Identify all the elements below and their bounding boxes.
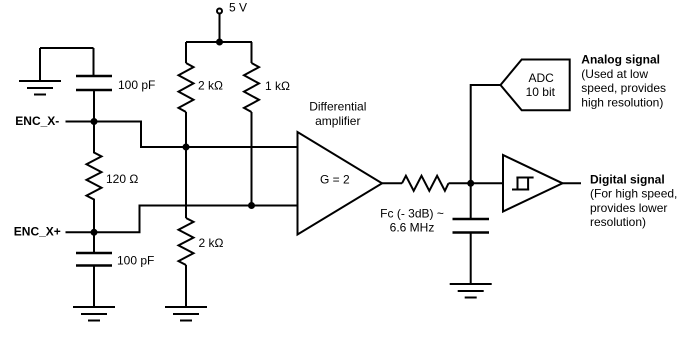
ADC block [501,60,570,111]
node supply rail junction [216,39,223,46]
wire C2 bottom stub [93,266,95,308]
node ENC_X- junction [91,118,98,125]
svg-text:G = 2: G = 2 [320,173,350,187]
wire ENC_X+ to amp minus input [94,206,298,233]
svg-text:ADC: ADC [529,71,555,85]
wire ENC_X- lead [66,121,95,123]
comparator U2 schmitt trigger [503,155,563,212]
resistor R5 filter [402,176,449,191]
svg-text:speed, provides: speed, provides [581,81,666,95]
wire R5 to node [449,182,471,184]
ground G4 below R4 [165,307,207,321]
wire amp output [382,182,402,184]
svg-text:Analog signal: Analog signal [581,53,660,67]
5V terminal circle [217,9,222,14]
wire R2 top stub [251,42,253,63]
capacitor C3 filter [453,219,490,233]
svg-text:Digital signal: Digital signal [590,172,665,186]
svg-text:5 V: 5 V [229,1,247,15]
svg-text:(Used at low: (Used at low [581,67,648,81]
svg-text:Fc (- 3dB) ~: Fc (- 3dB) ~ [380,207,444,221]
wire R4 bottom stub [185,265,187,307]
svg-text:10 bit: 10 bit [526,85,556,99]
ground G2 below C2 [73,307,115,321]
wire R1 top stub [185,42,187,63]
wire R2 bottom stub [251,112,253,206]
wire C1 bottom stub [93,90,95,122]
node filter output junction [467,180,474,187]
node ENC_X+ junction [91,229,98,236]
ground G3 below C3 [450,284,492,298]
svg-text:amplifier: amplifier [315,114,360,128]
svg-text:Differential: Differential [309,100,366,114]
svg-text:6.6 MHz: 6.6 MHz [390,221,435,235]
svg-text:provides lower: provides lower [590,201,667,215]
node R2 bottom junction [248,202,255,209]
capacitor C1 100 pF (upper) [76,76,112,90]
wire supply rail [186,41,252,43]
wire 5V stub [219,14,221,43]
wire node down to C3 [470,183,472,219]
wire R4 top stub [185,147,187,218]
svg-text:ENC_X-: ENC_X- [15,114,59,128]
svg-text:high resolution): high resolution) [581,95,663,109]
wire R1 bottom stub [185,112,187,147]
resistor R1 2 kOhm (upper) [179,63,194,112]
wire C3 bottom stub [470,233,472,285]
capacitor C2 100 pF (lower) [76,253,112,266]
wire C2 top stub [93,232,95,253]
svg-text:ENC_X+: ENC_X+ [14,225,61,239]
svg-text:2 kΩ: 2 kΩ [199,236,224,250]
svg-text:120 Ω: 120 Ω [106,172,138,186]
wire ENC_X- to amp plus input [94,122,298,148]
wire node to schmitt input [471,182,503,184]
wire schmitt output [563,182,582,184]
svg-text:(For high speed,: (For high speed, [590,187,677,201]
wire ENC_X+ lead [66,231,95,233]
svg-text:100 pF: 100 pF [117,254,154,268]
hysteresis symbol [512,177,534,191]
svg-text:resolution): resolution) [590,215,646,229]
node R1 bottom junction [183,144,190,151]
wire node up to ADC [471,85,501,183]
svg-text:100 pF: 100 pF [118,78,155,92]
ground G1 top-left [19,81,61,95]
svg-text:1 kΩ: 1 kΩ [265,79,290,93]
svg-text:2 kΩ: 2 kΩ [198,79,223,93]
op-amp U1 differential amplifier [298,132,383,235]
resistor R4 2 kOhm (lower) [179,218,194,265]
wire ground link top-left [40,48,94,81]
resistor R3 120 Ohm [87,122,102,233]
resistor R2 1 kOhm [244,63,259,112]
